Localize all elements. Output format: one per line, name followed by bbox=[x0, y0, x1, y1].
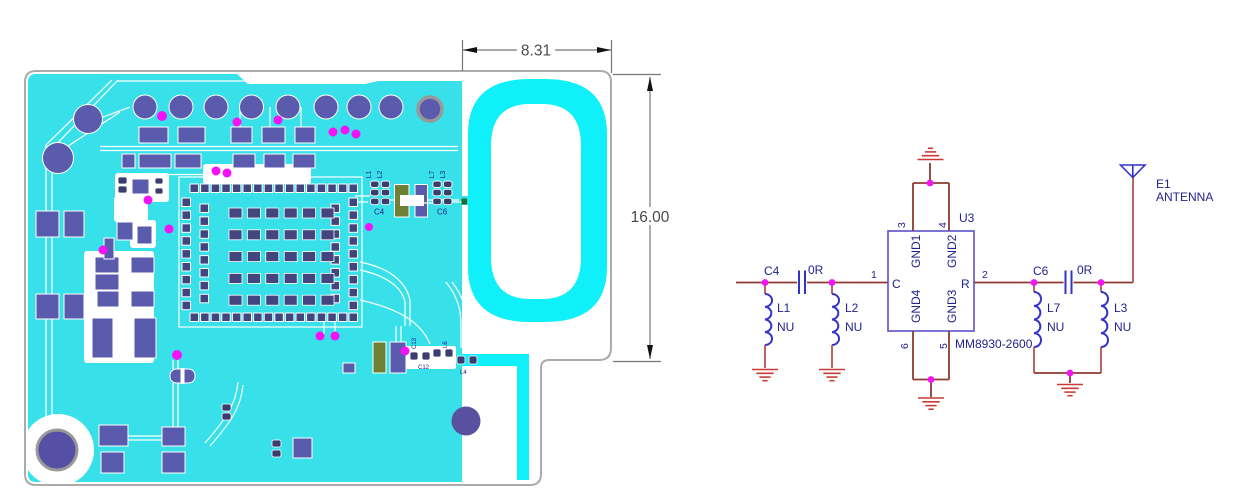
antenna E1 bbox=[1121, 165, 1146, 178]
pcb: filter cluster bottom (C12/L4) bbox=[373, 337, 477, 376]
svg-text:16.00: 16.00 bbox=[631, 209, 670, 226]
svg-text:1: 1 bbox=[871, 269, 877, 281]
svg-text:C6: C6 bbox=[1033, 264, 1049, 278]
wires: pins 6,5 to bottom ground bbox=[913, 331, 949, 397]
capacitor C6 bbox=[1066, 271, 1072, 295]
svg-text:5: 5 bbox=[938, 343, 950, 349]
ground top (inverted) bbox=[918, 148, 944, 159]
svg-text:GND3: GND3 bbox=[945, 289, 959, 323]
svg-text:R: R bbox=[961, 277, 970, 291]
pcb: magenta via dots bbox=[99, 111, 410, 360]
svg-text:C4: C4 bbox=[374, 208, 385, 217]
svg-text:U3: U3 bbox=[959, 211, 975, 225]
svg-text:6: 6 bbox=[899, 343, 911, 349]
wires: pins 3,4 to top ground bbox=[913, 163, 949, 231]
pcb: QFN inner grid bbox=[229, 208, 334, 305]
svg-text:C4: C4 bbox=[764, 264, 780, 278]
svg-text:C: C bbox=[892, 277, 901, 291]
svg-text:E1: E1 bbox=[1156, 177, 1171, 191]
svg-text:GND1: GND1 bbox=[909, 234, 923, 268]
svg-text:3: 3 bbox=[896, 222, 908, 228]
pcb: filter cluster top (C4/L1/L2) bbox=[355, 181, 467, 217]
wire: main input net bbox=[736, 282, 797, 284]
node dot bottom bbox=[928, 376, 935, 383]
node dot C4 right bbox=[829, 279, 836, 286]
svg-text:0R: 0R bbox=[808, 263, 824, 277]
svg-text:NU: NU bbox=[1114, 320, 1131, 334]
svg-text:L3: L3 bbox=[1114, 301, 1128, 315]
svg-text:C6: C6 bbox=[437, 208, 448, 217]
svg-text:MM8930-2600: MM8930-2600 bbox=[955, 337, 1033, 351]
op IC U3 box bbox=[888, 231, 974, 331]
pcb board outline bbox=[25, 71, 611, 485]
node dot right ground bbox=[1067, 370, 1074, 377]
node dot C6 right bbox=[1098, 279, 1105, 286]
svg-text:NU: NU bbox=[1047, 320, 1064, 334]
capacitor C4 bbox=[799, 271, 805, 295]
pcb: white patches on pour bbox=[22, 164, 456, 486]
svg-text:L7: L7 bbox=[429, 171, 436, 179]
svg-text:C12: C12 bbox=[418, 365, 430, 371]
inductor L7 bbox=[1033, 283, 1035, 293]
svg-text:NU: NU bbox=[777, 320, 794, 334]
pcb: QFN footprint ring pads bbox=[182, 184, 358, 322]
pcb board: big D silkscreen bbox=[468, 79, 607, 322]
svg-text:L1: L1 bbox=[777, 301, 791, 315]
pcb: cluster labels bbox=[366, 171, 448, 217]
pcb board: copper pour bbox=[28, 74, 529, 482]
svg-text:L6: L6 bbox=[443, 341, 449, 348]
inductor L1 bbox=[764, 283, 766, 295]
node dot C4 left bbox=[762, 279, 769, 286]
svg-text:L2: L2 bbox=[377, 171, 384, 179]
wire: L7/L3 bottoms join bbox=[1034, 373, 1101, 383]
dimension 16.00 vertical bbox=[613, 75, 661, 362]
wire: antenna vertical bbox=[1132, 177, 1134, 283]
svg-text:GND2: GND2 bbox=[945, 234, 959, 268]
pcb: white traces bbox=[46, 80, 467, 446]
svg-text:L4: L4 bbox=[460, 370, 467, 376]
svg-text:8.31: 8.31 bbox=[521, 43, 551, 60]
dimension 8.31 horizontal bbox=[463, 40, 612, 73]
ground bottom center bbox=[918, 398, 944, 409]
pcb: upper rectangle pads row2 bbox=[122, 127, 315, 168]
pcb: mount hole bottom-left bbox=[37, 430, 77, 470]
inductor L3 bbox=[1100, 283, 1102, 293]
svg-text:L7: L7 bbox=[1047, 301, 1061, 315]
svg-text:L2: L2 bbox=[845, 301, 859, 315]
pcb: left side pads bbox=[36, 179, 355, 473]
svg-text:ANTENNA: ANTENNA bbox=[1156, 190, 1213, 204]
svg-text:C13: C13 bbox=[412, 337, 418, 349]
pcb: ringed pad top bbox=[418, 97, 442, 121]
svg-text:L3: L3 bbox=[440, 171, 447, 179]
wire: R pin to C6 bbox=[974, 282, 1064, 284]
wire: cap to antenna branch bbox=[1074, 282, 1134, 284]
svg-text:4: 4 bbox=[937, 222, 949, 228]
pcb: QFN silkscreen outline bbox=[179, 177, 362, 327]
svg-text:GND4: GND4 bbox=[909, 289, 923, 323]
ground under L2 bbox=[819, 370, 845, 381]
pcb: top row circular pads bbox=[43, 95, 404, 174]
svg-text:L1: L1 bbox=[366, 171, 373, 179]
wire: node C4 to cap bbox=[807, 282, 888, 284]
svg-text:0R: 0R bbox=[1077, 263, 1093, 277]
pcb: via dot bottom bbox=[452, 407, 481, 436]
inductor L2 bbox=[831, 283, 833, 295]
svg-text:NU: NU bbox=[845, 320, 862, 334]
node dot top bbox=[927, 180, 934, 187]
pcb: upper rectangle pads row3 bbox=[122, 154, 135, 168]
ground under L1 bbox=[752, 370, 778, 381]
ground right bbox=[1057, 385, 1083, 396]
node dot C6 left bbox=[1031, 279, 1038, 286]
svg-text:2: 2 bbox=[982, 269, 988, 281]
